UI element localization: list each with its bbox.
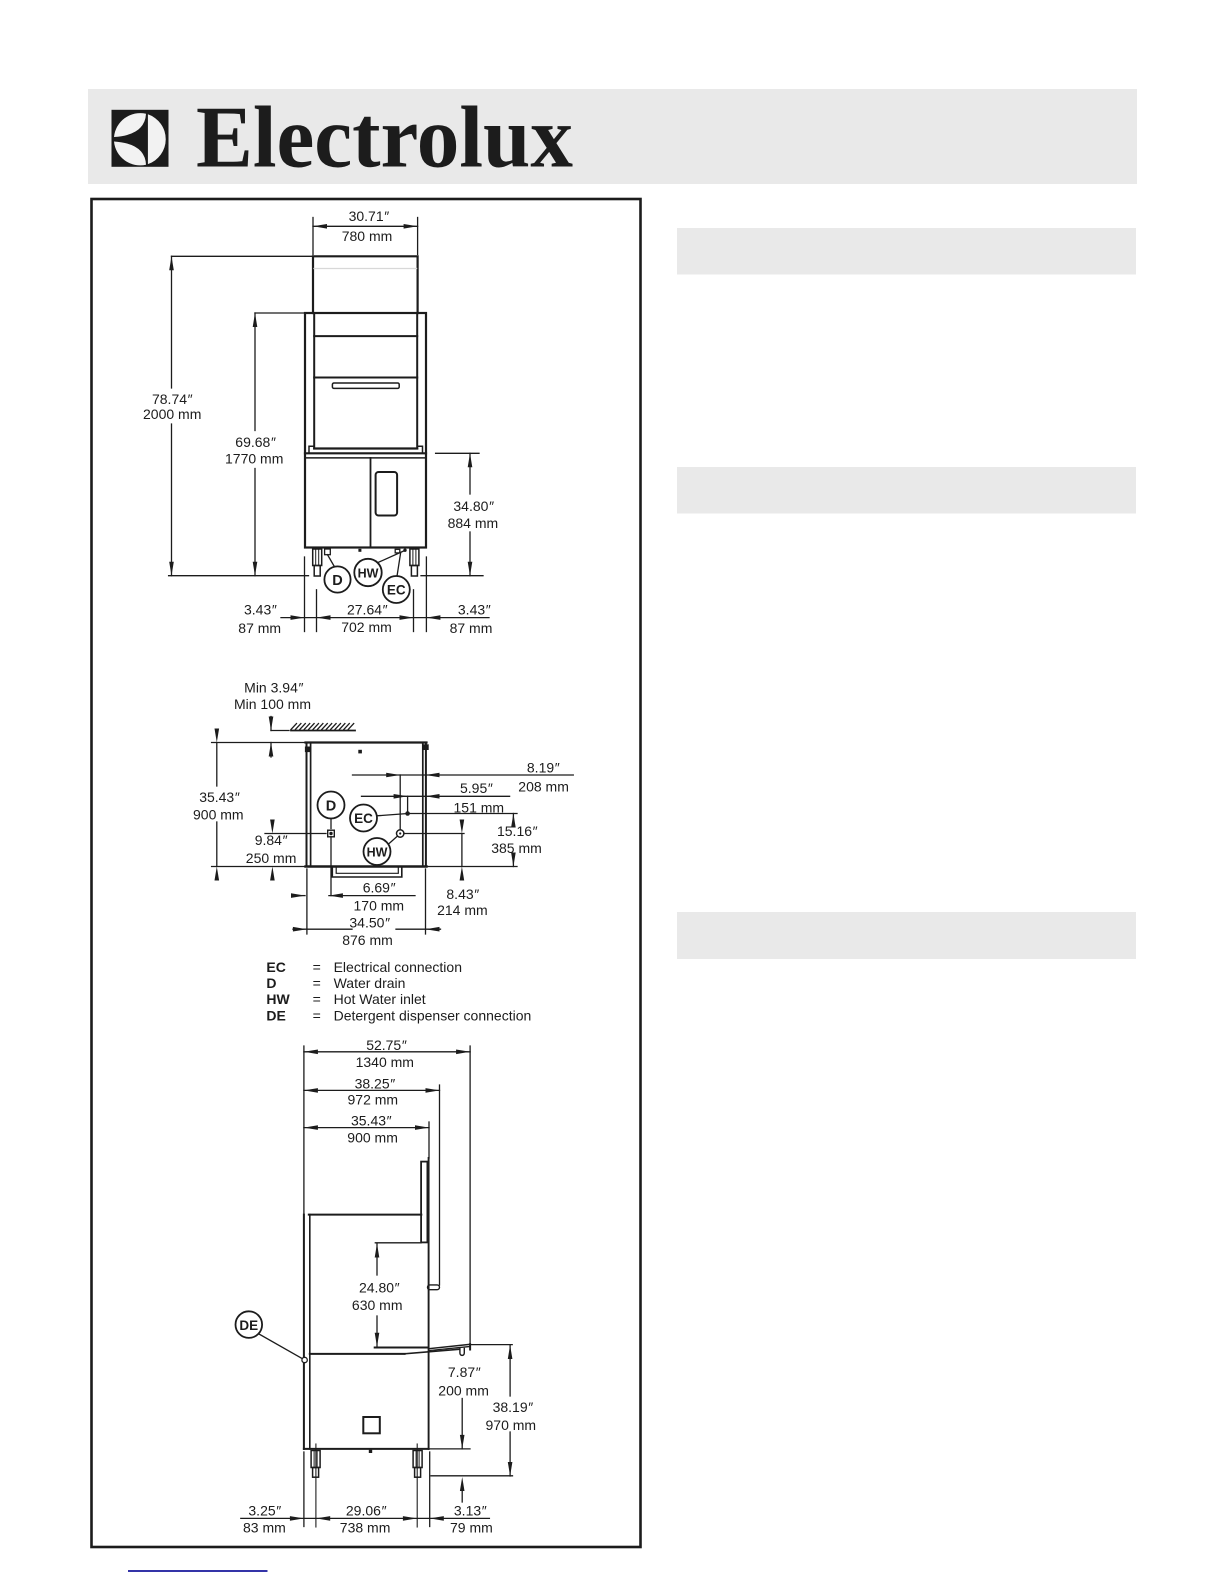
detergent box bbox=[363, 1417, 380, 1433]
svg-text:214 mm: 214 mm bbox=[437, 902, 488, 918]
svg-text:972 mm: 972 mm bbox=[348, 1092, 399, 1108]
dim 250 connector bbox=[265, 833, 326, 835]
svg-text:DE: DE bbox=[239, 1318, 258, 1333]
svg-text:3.13″: 3.13″ bbox=[454, 1502, 487, 1518]
svg-text:884 mm: 884 mm bbox=[448, 515, 499, 531]
svg-text:208 mm: 208 mm bbox=[518, 778, 569, 794]
svg-text:1770 mm: 1770 mm bbox=[225, 450, 283, 466]
leader to HW bbox=[378, 550, 405, 562]
dim 385 bbox=[512, 814, 514, 825]
corner block top-right bbox=[423, 744, 429, 750]
open door panel bbox=[421, 1162, 427, 1243]
svg-text:38.19″: 38.19″ bbox=[493, 1399, 534, 1415]
machine top bbox=[309, 1214, 422, 1216]
svg-text:35.43″: 35.43″ bbox=[351, 1113, 392, 1129]
table bracket hook / dim 200 top arrow bbox=[460, 1349, 464, 1356]
EC riser bbox=[407, 796, 409, 811]
table slab lower edge bbox=[429, 1347, 470, 1351]
svg-text:8.43″: 8.43″ bbox=[446, 886, 479, 902]
svg-text:38.25″: 38.25″ bbox=[355, 1076, 396, 1092]
svg-text:170 mm: 170 mm bbox=[354, 898, 405, 914]
dim 900 line bbox=[304, 1127, 429, 1129]
wall hatching bbox=[291, 724, 354, 730]
svg-text:Electrolux: Electrolux bbox=[196, 90, 573, 187]
svg-text:3.43″: 3.43″ bbox=[244, 602, 277, 618]
svg-text:8.19″: 8.19″ bbox=[527, 760, 560, 776]
circle DE bbox=[236, 1311, 263, 1338]
svg-text:27.64″: 27.64″ bbox=[347, 602, 388, 618]
dim 2000 connector bbox=[172, 255, 314, 257]
svg-text:900 mm: 900 mm bbox=[347, 1130, 398, 1146]
Electrolux logo symbol bbox=[112, 110, 169, 167]
main drawing frame bbox=[92, 199, 641, 1547]
svg-text:3.43″: 3.43″ bbox=[458, 602, 491, 618]
dim 900 line bbox=[216, 743, 218, 787]
right foot bbox=[410, 549, 419, 566]
svg-text:HW: HW bbox=[358, 567, 379, 581]
right corner bracket bbox=[418, 446, 423, 452]
dim 250 arrows bbox=[270, 820, 275, 834]
svg-text:79 mm: 79 mm bbox=[450, 1520, 493, 1536]
svg-text:=: = bbox=[313, 1007, 321, 1023]
D marker square bbox=[328, 830, 335, 837]
left foot bbox=[311, 1451, 320, 1468]
svg-text:DE: DE bbox=[266, 1007, 285, 1023]
leader to D bbox=[328, 555, 335, 567]
EC level line bbox=[410, 813, 517, 815]
left foot bbox=[313, 549, 322, 566]
svg-text:52.75″: 52.75″ bbox=[366, 1037, 407, 1053]
door handle capsule bbox=[428, 1285, 440, 1290]
svg-text:=: = bbox=[313, 959, 321, 975]
dim 780 line bbox=[313, 225, 418, 227]
cabinet bottom bbox=[304, 1448, 429, 1450]
top view box top edge bbox=[306, 741, 427, 743]
svg-text:30.71″: 30.71″ bbox=[349, 208, 390, 224]
dim 1340 line bbox=[304, 1051, 470, 1053]
hood upper outline bbox=[313, 256, 418, 313]
circle EC bbox=[350, 805, 377, 832]
circle HW bbox=[364, 838, 391, 865]
top view box bottom edge bbox=[306, 865, 427, 867]
dim 151 line bbox=[362, 795, 510, 797]
bottom dim line bbox=[241, 1517, 490, 1519]
dim 1770 line bbox=[254, 313, 256, 431]
center mark dot bbox=[358, 750, 362, 754]
floor line right bbox=[421, 575, 483, 577]
left corner bracket bbox=[309, 446, 314, 452]
circle EC bbox=[383, 576, 410, 603]
svg-text:EC: EC bbox=[266, 959, 285, 975]
bottom extension lines bbox=[304, 557, 306, 632]
circle HW bbox=[354, 559, 381, 586]
dim 170 bbox=[292, 895, 305, 897]
dim 884 line bbox=[469, 453, 471, 494]
svg-text:HW: HW bbox=[266, 991, 290, 1007]
hood handle slot bbox=[332, 383, 399, 388]
machine front edge bbox=[428, 1158, 430, 1449]
table top slant bbox=[429, 1344, 470, 1348]
HW riser bbox=[399, 775, 401, 830]
bottom tray inner bbox=[336, 867, 398, 874]
svg-text:69.68″: 69.68″ bbox=[235, 434, 276, 450]
svg-text:78.74″: 78.74″ bbox=[152, 391, 193, 407]
svg-text:D: D bbox=[266, 975, 276, 991]
svg-text:738 mm: 738 mm bbox=[340, 1520, 391, 1536]
hood band line 1 bbox=[314, 335, 417, 337]
dim 2000 line bbox=[171, 256, 173, 388]
svg-text:7.87″: 7.87″ bbox=[448, 1364, 481, 1380]
machine left edge outer bbox=[303, 1215, 305, 1449]
HW leader bbox=[388, 836, 397, 844]
svg-text:Hot Water inlet: Hot Water inlet bbox=[334, 991, 426, 1007]
machine top level line bbox=[212, 742, 307, 744]
right section bar 3 bbox=[677, 912, 1136, 959]
svg-text:87 mm: 87 mm bbox=[450, 620, 493, 636]
machine bottom level line left bbox=[212, 866, 307, 868]
svg-text:6.69″: 6.69″ bbox=[363, 880, 396, 896]
ext line front edge bbox=[428, 1122, 430, 1158]
floor pointer arrow bbox=[460, 1477, 465, 1491]
dim 780 extension lines bbox=[312, 218, 314, 255]
D drop line bbox=[330, 837, 332, 896]
ext line table end bbox=[469, 1046, 471, 1344]
svg-text:=: = bbox=[313, 975, 321, 991]
drain stub bbox=[325, 549, 331, 555]
svg-text:3.25″: 3.25″ bbox=[248, 1502, 281, 1518]
hood faint inner line bbox=[314, 268, 417, 270]
hood inner vertical left bbox=[313, 313, 315, 449]
top view box left edge double bbox=[306, 743, 308, 867]
svg-text:83 mm: 83 mm bbox=[243, 1520, 286, 1536]
control panel bbox=[376, 472, 398, 516]
dim 972 line bbox=[304, 1089, 440, 1091]
svg-text:D: D bbox=[332, 573, 342, 589]
svg-text:702 mm: 702 mm bbox=[341, 619, 392, 635]
wall line bbox=[291, 730, 355, 732]
HW point bbox=[403, 549, 406, 552]
svg-text:34.80″: 34.80″ bbox=[453, 498, 494, 514]
DE leader bbox=[259, 1334, 303, 1359]
svg-text:Min 100 mm: Min 100 mm bbox=[234, 696, 311, 712]
floor line right bbox=[431, 1475, 513, 1477]
hood band line 2 bbox=[314, 377, 417, 379]
top view box right edge double bbox=[422, 743, 424, 867]
svg-text:780 mm: 780 mm bbox=[342, 228, 393, 244]
svg-text:D: D bbox=[326, 798, 336, 814]
circle D bbox=[324, 566, 350, 592]
svg-text:Min 3.94″: Min 3.94″ bbox=[244, 680, 304, 696]
svg-text:Electrical connection: Electrical connection bbox=[334, 959, 462, 975]
svg-text:EC: EC bbox=[387, 583, 406, 598]
svg-text:5.95″: 5.95″ bbox=[460, 780, 493, 796]
machine left edge inner bbox=[309, 1215, 311, 1449]
right foot bbox=[413, 1451, 422, 1468]
header gray bar bbox=[88, 89, 1137, 184]
D leader bbox=[330, 819, 332, 829]
hood bottom plate bbox=[314, 447, 417, 449]
svg-text:250 mm: 250 mm bbox=[246, 850, 297, 866]
svg-text:2000 mm: 2000 mm bbox=[143, 406, 201, 422]
ext line handle bbox=[439, 1085, 441, 1285]
dim 208 line bbox=[353, 774, 574, 776]
svg-text:87 mm: 87 mm bbox=[238, 620, 281, 636]
svg-text:385 mm: 385 mm bbox=[491, 840, 542, 856]
svg-text:9.84″: 9.84″ bbox=[255, 832, 288, 848]
cabinet top line bbox=[310, 1353, 405, 1355]
hood bottom line bbox=[375, 1347, 427, 1349]
ext line left (rear) bbox=[303, 1046, 305, 1215]
EC leader bbox=[377, 814, 406, 816]
svg-text:200 mm: 200 mm bbox=[438, 1382, 489, 1398]
svg-text:876 mm: 876 mm bbox=[342, 932, 393, 948]
cabinet bottom level extension right bbox=[429, 1448, 470, 1450]
foot center lines bbox=[315, 1444, 317, 1527]
DE point ring bbox=[302, 1357, 307, 1362]
bottom tray outer bbox=[332, 867, 402, 878]
footer hyperlink underline bbox=[128, 1570, 268, 1572]
table end cap bbox=[469, 1344, 471, 1349]
dim 1770 connector bbox=[255, 312, 304, 314]
svg-text:15.16″: 15.16″ bbox=[497, 823, 538, 839]
cabinet top band bbox=[305, 452, 426, 454]
dim 214 bbox=[461, 834, 463, 867]
dim 970 bbox=[509, 1345, 511, 1396]
cabinet door split bbox=[370, 458, 372, 547]
svg-text:630 mm: 630 mm bbox=[352, 1297, 403, 1313]
dim 876 ext lines bbox=[306, 869, 308, 934]
svg-text:=: = bbox=[313, 991, 321, 1007]
dim 876 line bbox=[293, 928, 352, 930]
hood inner vertical right bbox=[416, 313, 418, 449]
min gap connector to wall bbox=[271, 730, 289, 732]
bottom dim line bbox=[281, 617, 489, 619]
svg-text:24.80″: 24.80″ bbox=[359, 1280, 400, 1296]
bottom ext lines bbox=[303, 1452, 305, 1527]
svg-text:EC: EC bbox=[354, 811, 373, 826]
dim 200 bbox=[461, 1399, 463, 1449]
svg-text:29.06″: 29.06″ bbox=[346, 1502, 387, 1518]
svg-text:Water drain: Water drain bbox=[334, 975, 406, 991]
svg-text:34.50″: 34.50″ bbox=[349, 914, 390, 930]
corner block top-left bbox=[305, 747, 311, 753]
table lower slant bbox=[405, 1349, 460, 1354]
door bottom level line bbox=[375, 1242, 421, 1244]
dim 630 bbox=[376, 1244, 378, 1276]
center mark bbox=[358, 549, 361, 552]
HW level line bbox=[404, 833, 464, 835]
table level line right bbox=[472, 1344, 513, 1346]
machine bottom level line right bbox=[426, 866, 518, 868]
floor line left bbox=[169, 575, 309, 577]
circle D bbox=[318, 792, 345, 819]
svg-text:900 mm: 900 mm bbox=[193, 807, 244, 823]
dim 884 connector top bbox=[436, 452, 479, 454]
svg-text:970 mm: 970 mm bbox=[486, 1417, 537, 1433]
machine outer box bbox=[305, 313, 426, 548]
svg-text:35.43″: 35.43″ bbox=[199, 789, 240, 805]
svg-text:1340 mm: 1340 mm bbox=[356, 1054, 414, 1070]
EC point bbox=[405, 811, 410, 816]
EC stub bbox=[395, 549, 400, 553]
HW ring bbox=[397, 830, 404, 837]
right section bar 1 bbox=[677, 228, 1136, 275]
leader to EC bbox=[397, 553, 401, 576]
min gap dim bbox=[270, 717, 272, 731]
svg-text:HW: HW bbox=[367, 846, 388, 860]
right section bar 2 bbox=[677, 467, 1136, 514]
svg-text:Detergent dispenser connection: Detergent dispenser connection bbox=[334, 1007, 532, 1023]
bottom center mark bbox=[369, 1450, 372, 1453]
